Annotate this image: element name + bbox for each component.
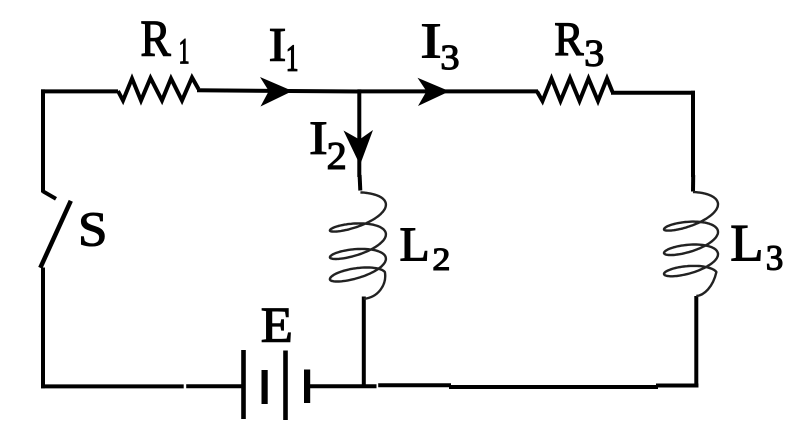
battery E long plate 2 [283, 351, 288, 421]
resistor R1 [118, 78, 199, 101]
wire: bottom segment 2 (to battery) [186, 384, 241, 388]
wire: middle vertical upper (junction to L2, I2 segment) [357, 89, 361, 177]
label L3 subscript 3 [767, 246, 782, 270]
label S (switch) [82, 213, 105, 246]
wire: L2 top stub [358, 175, 363, 191]
inductor L3 coil [664, 192, 718, 296]
label I2 subscript 2 [328, 143, 344, 169]
label L2 subscript 2 [434, 249, 448, 270]
label L3 'L' [732, 226, 760, 261]
resistor R3 [537, 78, 613, 101]
label L2 'L' [401, 229, 427, 261]
wire: right vertical upper (corner to L3) [691, 91, 695, 177]
label R1 'R' [142, 22, 171, 56]
switch S blade [40, 201, 71, 268]
wire: bottom segment 3 (battery to L2 node) [310, 384, 377, 388]
wire: bottom segment 4 (L2 node rightward) [378, 383, 451, 387]
wire: L3 top stub [691, 175, 695, 192]
wire: left vertical upper (to switch) [41, 89, 45, 192]
wire: bottom segment 6 (to bottom-right corner) [656, 384, 698, 388]
label E (battery) [262, 309, 290, 342]
label I1 'I' [271, 29, 285, 60]
switch S upper contact tick [43, 191, 56, 199]
wire: junction to R3 (I3 segment) [358, 89, 539, 93]
arrow I3 head [418, 78, 450, 106]
label I2 'I' [311, 123, 326, 154]
wire: left vertical lower (switch to bottom) [41, 268, 45, 389]
wire: middle vertical lower (L2 to bottom node) [362, 297, 366, 388]
battery E short plate 2 [304, 370, 310, 404]
label I3 subscript 3 [442, 46, 458, 70]
wire: R1 to junction (I1 segment) [197, 90, 360, 91]
wire: R3 to top-right corner [611, 91, 695, 95]
wire: bottom segment 5 [449, 385, 658, 389]
inductor L2 coil [330, 192, 386, 298]
arrow I2 head [344, 130, 374, 165]
label R3 subscript 3 [586, 41, 603, 67]
battery E long plate 1 [241, 350, 246, 419]
label R1 subscript 1 [181, 39, 189, 63]
label R3 'R' [556, 24, 584, 55]
battery E short plate 1 [262, 370, 268, 404]
wire: top-left horizontal (node A to R1) [41, 89, 118, 93]
label I3 'I' [423, 25, 440, 58]
label I1 subscript 1 [288, 46, 297, 71]
arrow I1 head [260, 77, 293, 107]
wire: bottom segment 1 [41, 384, 184, 388]
wire: right vertical lower (L3 to bottom-right corner) [694, 296, 698, 388]
